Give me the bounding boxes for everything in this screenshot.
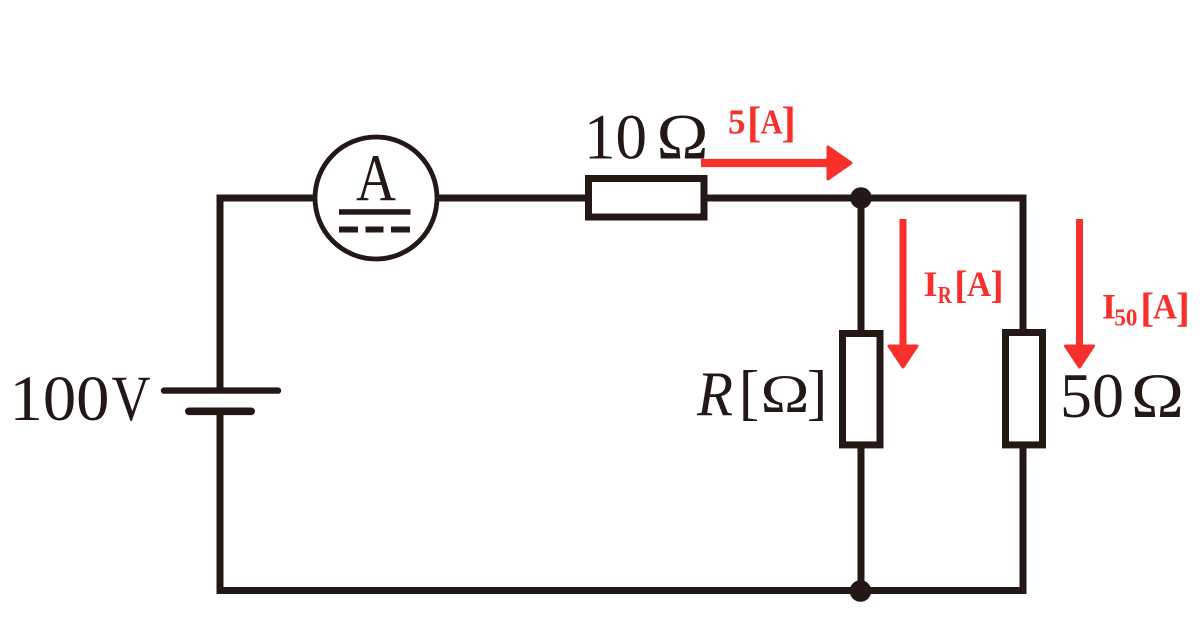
svg-text:100: 100 [10,363,110,435]
label 5[A] [728,100,796,147]
wire right branch [1020,195,1027,595]
svg-text:Ω: Ω [657,102,709,174]
svg-text:[: [ [1140,284,1154,330]
resistor 50 ohm [1006,333,1043,445]
svg-text:5: 5 [728,103,746,142]
battery V1 [164,391,278,412]
wire left lower [217,414,224,594]
label I_R[A] [924,263,1004,309]
svg-text:V: V [112,363,151,435]
svg-text:[: [ [747,100,761,147]
current arrow 5[A] [701,147,851,179]
label R ohm [696,359,827,430]
resistor 10 ohm [589,179,705,218]
svg-text:R: R [696,360,733,430]
svg-text:50: 50 [1060,361,1124,431]
wire left upper [217,195,224,389]
svg-text:A: A [761,103,784,142]
svg-text:]: ] [782,100,796,147]
svg-text:R: R [938,282,952,309]
svg-text:10: 10 [584,102,647,174]
label 10 ohm [584,102,709,174]
wire branch R [858,198,865,594]
svg-text:I: I [924,264,938,304]
svg-text:[: [ [954,263,967,307]
svg-text:A: A [967,264,991,304]
svg-text:]: ] [807,359,828,427]
label 100 V [10,363,151,435]
label 50 ohm [1060,361,1184,431]
svg-text:50: 50 [1114,305,1137,332]
ammeter A1 [315,137,437,259]
current arrow I_50 [1066,219,1094,367]
svg-text:A: A [1153,286,1177,326]
current arrow I_R [889,219,917,367]
node junction bottom [850,580,872,602]
svg-text:A: A [356,141,396,215]
svg-text:Ω: Ω [761,363,810,424]
svg-text:]: ] [991,263,1004,307]
wire top [217,195,1027,202]
node junction top [850,187,872,209]
svg-text:]: ] [1176,284,1190,330]
svg-text:Ω: Ω [1131,361,1184,431]
svg-text:[: [ [739,359,760,427]
wire bottom [217,587,1027,594]
label I_50[A] [1102,284,1190,332]
resistor R [843,334,881,445]
